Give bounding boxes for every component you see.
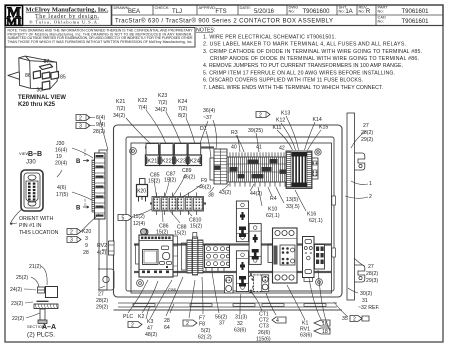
svg-text:(2) PLCS.: (2) PLCS. bbox=[27, 332, 55, 339]
svg-text:29(2): 29(2) bbox=[96, 305, 108, 311]
svg-text:12(4): 12(4) bbox=[133, 221, 145, 227]
svg-text:5. CRIMP ITEM 17 FERRULE ON AL: 5. CRIMP ITEM 17 FERRULE ON ALL 20 AWG W… bbox=[203, 70, 395, 76]
svg-text:29(3): 29(3) bbox=[366, 278, 378, 284]
svg-text:64: 64 bbox=[164, 325, 170, 331]
svg-text:RV2: RV2 bbox=[97, 243, 107, 249]
svg-text:K10: K10 bbox=[268, 207, 277, 213]
svg-text:5/20/16: 5/20/16 bbox=[254, 9, 275, 15]
svg-text:22(2): 22(2) bbox=[12, 316, 24, 322]
svg-text:No:: No: bbox=[378, 9, 384, 14]
svg-text:K20: K20 bbox=[137, 189, 146, 195]
svg-text:K24: K24 bbox=[190, 159, 200, 165]
svg-text:No:: No: bbox=[359, 9, 365, 14]
svg-text:7(2): 7(2) bbox=[116, 106, 125, 112]
svg-text:CT3: CT3 bbox=[259, 324, 269, 330]
svg-text:THIS LOCATION: THIS LOCATION bbox=[19, 230, 59, 236]
svg-text:TERMINAL VIEW: TERMINAL VIEW bbox=[18, 95, 66, 101]
svg-text:34(2): 34(2) bbox=[155, 107, 167, 113]
svg-text:46(2): 46(2) bbox=[183, 175, 195, 181]
svg-text:85: 85 bbox=[60, 75, 66, 81]
svg-text:27: 27 bbox=[98, 292, 104, 298]
svg-text:33(.5): 33(.5) bbox=[286, 204, 300, 210]
svg-text:3: 3 bbox=[70, 238, 73, 244]
svg-text:63(6): 63(6) bbox=[234, 328, 246, 334]
svg-text:® Tulsa, Oklahoma U.S.A.: ® Tulsa, Oklahoma U.S.A. bbox=[29, 20, 99, 26]
svg-text:B: B bbox=[76, 206, 81, 212]
svg-text:27: 27 bbox=[368, 264, 374, 270]
svg-text:A: A bbox=[249, 290, 253, 296]
svg-text:2: 2 bbox=[186, 321, 189, 327]
svg-text:No:: No: bbox=[378, 19, 384, 24]
svg-text:62(.1): 62(.1) bbox=[309, 218, 323, 224]
svg-text:40: 40 bbox=[231, 145, 237, 151]
svg-text:MI: MI bbox=[6, 17, 22, 29]
svg-text:K22: K22 bbox=[138, 98, 147, 104]
svg-text:J30: J30 bbox=[56, 141, 64, 147]
svg-text:15(2): 15(2) bbox=[190, 224, 202, 230]
svg-text:F9: F9 bbox=[201, 178, 207, 184]
svg-text:K15: K15 bbox=[319, 125, 328, 131]
svg-text:~46(2): ~46(2) bbox=[196, 185, 211, 191]
svg-text:TracStar® 630 / TracStar® 900: TracStar® 630 / TracStar® 900 Series 2 C… bbox=[115, 18, 333, 25]
svg-text:2: 2 bbox=[79, 116, 82, 122]
svg-text:86: 86 bbox=[25, 73, 31, 79]
svg-text:T9061601: T9061601 bbox=[401, 9, 429, 15]
svg-text:36(4): 36(4) bbox=[203, 108, 215, 114]
svg-text:TLJ: TLJ bbox=[172, 9, 182, 15]
svg-text:34(2): 34(2) bbox=[113, 113, 125, 119]
svg-text:87: 87 bbox=[44, 59, 50, 65]
svg-text:42: 42 bbox=[279, 146, 285, 152]
svg-text:20(4): 20(4) bbox=[55, 161, 67, 167]
svg-text:APPRVD:: APPRVD: bbox=[199, 5, 217, 10]
svg-text:No:: No: bbox=[289, 9, 295, 14]
svg-text:K23: K23 bbox=[176, 159, 186, 165]
svg-text:37: 37 bbox=[219, 321, 225, 327]
svg-text:2. USE LABEL MAKER TO MARK TER: 2. USE LABEL MAKER TO MARK TERMINAL 4, A… bbox=[203, 42, 406, 48]
svg-text:28: 28 bbox=[83, 250, 89, 256]
svg-text:K12: K12 bbox=[276, 118, 285, 124]
svg-text:9: 9 bbox=[85, 243, 88, 249]
svg-text:DATE:: DATE: bbox=[240, 5, 251, 10]
svg-text:CRIMP ANODE OF DIODE IN TERMIN: CRIMP ANODE OF DIODE IN TERMINAL WITH WI… bbox=[210, 56, 419, 62]
svg-text:B–B: B–B bbox=[28, 151, 42, 158]
svg-text:F8: F8 bbox=[199, 322, 205, 328]
svg-text:K21: K21 bbox=[147, 159, 157, 165]
svg-text:15(2): 15(2) bbox=[164, 178, 176, 184]
svg-text:C86: C86 bbox=[168, 288, 177, 293]
svg-text:24(2): 24(2) bbox=[10, 287, 22, 293]
svg-text:K3: K3 bbox=[147, 319, 153, 325]
svg-text:38: 38 bbox=[208, 193, 214, 199]
svg-text:B: B bbox=[76, 159, 81, 165]
svg-text:R4: R4 bbox=[270, 196, 277, 202]
svg-text:4(2): 4(2) bbox=[97, 250, 106, 256]
svg-text:K20: K20 bbox=[82, 229, 91, 235]
svg-text:T9061601: T9061601 bbox=[401, 19, 429, 25]
svg-text:~37: ~37 bbox=[203, 115, 212, 121]
svg-text:4: 4 bbox=[276, 318, 279, 324]
svg-text:21(2): 21(2) bbox=[29, 264, 41, 270]
svg-text:C89: C89 bbox=[182, 168, 192, 174]
svg-text:T9061600: T9061600 bbox=[302, 9, 330, 15]
svg-text:K20 thru K25: K20 thru K25 bbox=[18, 102, 56, 108]
svg-text:3: 3 bbox=[85, 236, 88, 242]
svg-text:2: 2 bbox=[131, 323, 134, 329]
svg-text:BEA: BEA bbox=[128, 9, 140, 15]
svg-text:K23: K23 bbox=[158, 93, 167, 99]
svg-text:2: 2 bbox=[70, 230, 73, 236]
svg-text:K22: K22 bbox=[162, 159, 172, 165]
svg-text:1A: 1A bbox=[345, 9, 352, 15]
svg-text:48(2): 48(2) bbox=[145, 332, 157, 338]
svg-text:2: 2 bbox=[259, 113, 262, 119]
svg-text:ORIENT WITH: ORIENT WITH bbox=[19, 216, 53, 222]
svg-text:30(2): 30(2) bbox=[360, 291, 372, 297]
svg-text:K24: K24 bbox=[178, 99, 187, 105]
svg-text:7(2): 7(2) bbox=[158, 100, 167, 106]
svg-text:A–A: A–A bbox=[42, 324, 56, 331]
svg-text:115(6): 115(6) bbox=[256, 337, 271, 343]
svg-text:28(2): 28(2) bbox=[96, 298, 108, 304]
svg-text:29(2): 29(2) bbox=[361, 137, 373, 143]
svg-text:6(4): 6(4) bbox=[96, 115, 105, 121]
svg-text:PIN #1 IN: PIN #1 IN bbox=[19, 223, 42, 229]
svg-text:PLC: PLC bbox=[123, 314, 133, 320]
svg-text:44(2): 44(2) bbox=[250, 191, 262, 197]
svg-text:6. DISCARD COVERS SUPPLIED WIT: 6. DISCARD COVERS SUPPLIED WITH ITEM 11 … bbox=[203, 78, 363, 84]
svg-text:5(2): 5(2) bbox=[201, 328, 210, 334]
svg-text:16(4): 16(4) bbox=[55, 148, 67, 154]
svg-text:43(2): 43(2) bbox=[219, 190, 231, 196]
svg-text:31(3): 31(3) bbox=[235, 315, 247, 321]
svg-text:3. CRIMP CATHODE OF DIODE IN T: 3. CRIMP CATHODE OF DIODE IN TERMINAL WI… bbox=[203, 49, 422, 55]
svg-text:63(6): 63(6) bbox=[300, 333, 312, 339]
svg-text:K14: K14 bbox=[313, 117, 322, 123]
svg-text:J30: J30 bbox=[26, 160, 36, 166]
svg-text:5: 5 bbox=[122, 216, 125, 222]
svg-text:1. WIRE PER ELECTRICAL SCHEMAT: 1. WIRE PER ELECTRICAL SCHEMATIC #T90615… bbox=[203, 34, 336, 40]
svg-text:FTS: FTS bbox=[215, 9, 226, 15]
svg-text:K21: K21 bbox=[116, 99, 125, 105]
svg-text:15(2): 15(2) bbox=[174, 231, 186, 237]
svg-text:35: 35 bbox=[342, 316, 348, 322]
svg-text:18: 18 bbox=[322, 329, 328, 335]
svg-text:K2: K2 bbox=[138, 314, 144, 320]
svg-text:2: 2 bbox=[369, 194, 372, 200]
svg-text:19: 19 bbox=[56, 154, 62, 160]
svg-text:No:: No: bbox=[339, 9, 345, 14]
svg-text:R: R bbox=[366, 9, 371, 15]
svg-text:23(2): 23(2) bbox=[11, 301, 23, 307]
svg-text:28: 28 bbox=[164, 318, 170, 324]
svg-text:31: 31 bbox=[362, 298, 368, 304]
svg-text:30: 30 bbox=[37, 88, 43, 94]
svg-text:2: 2 bbox=[353, 317, 356, 323]
svg-text:~32 REF.: ~32 REF. bbox=[358, 305, 379, 311]
svg-text:26(6): 26(6) bbox=[258, 330, 270, 336]
svg-text:CHECK:: CHECK: bbox=[155, 5, 170, 10]
svg-text:28(2): 28(2) bbox=[366, 271, 378, 277]
svg-text:K16: K16 bbox=[307, 212, 316, 218]
svg-text:17(5): 17(5) bbox=[56, 192, 68, 198]
svg-text:7(2): 7(2) bbox=[178, 106, 187, 112]
svg-text:THAN THOSE FOR WHICH IT WAS FU: THAN THOSE FOR WHICH IT WAS FURNISHED WI… bbox=[8, 40, 193, 44]
svg-text:13(5): 13(5) bbox=[286, 197, 298, 203]
svg-text:25(2): 25(2) bbox=[16, 275, 28, 281]
svg-text:3: 3 bbox=[79, 124, 82, 130]
svg-text:32: 32 bbox=[237, 321, 243, 327]
svg-text:1: 1 bbox=[369, 181, 372, 187]
svg-text:62(.1): 62(.1) bbox=[266, 213, 280, 219]
svg-text:47: 47 bbox=[147, 326, 153, 332]
svg-text:4(6): 4(6) bbox=[57, 185, 66, 191]
svg-text:K13: K13 bbox=[281, 111, 290, 117]
svg-text:7. LABEL WIRE ENDS WITH THE TE: 7. LABEL WIRE ENDS WITH THE TERMINAL TO … bbox=[203, 85, 383, 91]
svg-text:62(.2): 62(.2) bbox=[198, 335, 212, 341]
svg-text:4. REMOVE JUMPERS TO PUT CURRE: 4. REMOVE JUMPERS TO PUT CURRENT TRANSFO… bbox=[203, 63, 403, 69]
svg-text:27: 27 bbox=[363, 123, 369, 129]
svg-text:39(25): 39(25) bbox=[248, 128, 263, 134]
